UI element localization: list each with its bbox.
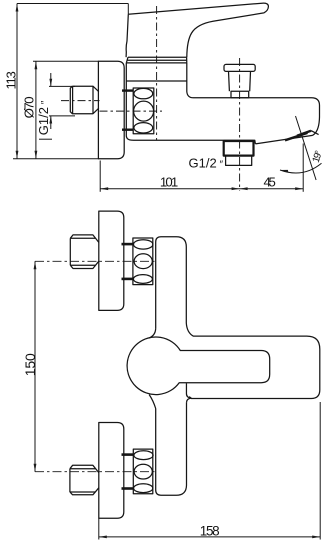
spout (front)	[186, 323, 319, 399]
wall flange (side view)	[98, 61, 124, 158]
body joint line	[126, 80, 187, 82]
union nut column (side view)	[133, 88, 154, 134]
dimension 113 line	[13, 4, 128, 159]
body column (front)	[156, 237, 187, 495]
lever (front)	[127, 337, 270, 395]
svg-text:Ø70: Ø70	[21, 96, 36, 118]
dimension O70 arrows	[35, 61, 38, 158]
aerator outlet	[224, 141, 254, 156]
svg-text:G1/2 ″: G1/2 ″	[189, 155, 224, 170]
nipple centerline	[61, 100, 100, 102]
wall flange lower	[99, 423, 124, 519]
axis centerline upper	[35, 260, 157, 262]
nipple upper	[70, 235, 99, 269]
valve body with spout (side view)	[126, 63, 319, 144]
body edge sliver between lever and spout bottom	[186, 383, 191, 402]
dimension 101 and 45	[100, 144, 303, 192]
diverter/aerator centerline	[239, 58, 241, 191]
svg-text:19°: 19°	[311, 149, 325, 164]
svg-text:150: 150	[22, 353, 38, 376]
nipple lower	[70, 465, 99, 495]
diverter knob	[224, 64, 255, 71]
handle centerline	[156, 6, 158, 140]
body axis centerline	[100, 110, 163, 112]
body-lever fillets	[149, 328, 156, 408]
dimension 158	[99, 402, 320, 540]
wall flange upper	[99, 211, 124, 310]
union nut upper (front)	[133, 238, 153, 285]
axis centerline lower	[35, 471, 157, 473]
dimension O70 line	[33, 61, 99, 158]
dimension 150	[34, 261, 36, 471]
dimension 113 arrows	[16, 4, 19, 159]
svg-text:45: 45	[264, 174, 276, 189]
lever handle (side view)	[126, 3, 268, 57]
dimension 19 degrees	[280, 116, 322, 180]
union nut lower (front)	[133, 449, 153, 494]
dimension G1/2 arrows	[49, 79, 52, 124]
G1/2 threaded nipple (side view)	[70, 86, 99, 114]
handle base rings	[126, 57, 187, 63]
flange-nut connector stubs	[122, 89, 133, 91]
svg-text:101: 101	[160, 175, 178, 190]
svg-text:158: 158	[200, 524, 220, 539]
svg-text:113: 113	[4, 71, 19, 89]
spout lip thick edge	[255, 135, 312, 144]
svg-text:G1/2 ″: G1/2 ″	[36, 100, 51, 135]
dimension G1/2 line	[39, 73, 75, 139]
